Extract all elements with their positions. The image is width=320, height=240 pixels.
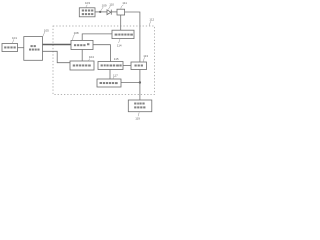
svg-text:111: 111 xyxy=(122,1,127,5)
box A (converter, top) xyxy=(79,8,95,17)
box I (processor 117) xyxy=(97,79,121,87)
label 115 xyxy=(111,55,119,61)
wire C to D xyxy=(18,47,24,49)
label 117 xyxy=(113,73,118,78)
label 104 xyxy=(88,55,94,61)
dashed enclosure 112 xyxy=(53,26,155,95)
wire B bottom to box K top xyxy=(120,15,122,30)
background xyxy=(0,0,157,120)
svg-text:103: 103 xyxy=(85,1,90,5)
label 105 xyxy=(43,28,49,36)
wire G bottom riser to I xyxy=(109,70,111,80)
wire H bottom down through junction to box J xyxy=(139,70,141,101)
box A text line 1 xyxy=(82,10,94,12)
label 101 xyxy=(12,36,17,43)
box H text xyxy=(134,65,142,67)
box D (power unit 105) xyxy=(24,37,43,61)
svg-text:114: 114 xyxy=(117,43,122,47)
label 110 xyxy=(108,2,114,9)
box E (oscillator 108) xyxy=(71,40,93,49)
box C text xyxy=(4,46,16,48)
label 111 xyxy=(121,1,127,9)
svg-text:113: 113 xyxy=(143,54,148,58)
node 109 junction dot xyxy=(99,11,101,13)
wire E top riser to box K left xyxy=(82,34,112,41)
wire diode to box B xyxy=(111,11,117,13)
wire B right to top-right corner then down to box H xyxy=(125,12,140,62)
junction 118 dot xyxy=(139,81,141,83)
box G text xyxy=(101,64,122,66)
box D text line 2 xyxy=(29,49,40,51)
box I text xyxy=(100,82,118,84)
svg-text:112: 112 xyxy=(149,18,154,22)
box J text line 2 xyxy=(134,106,145,108)
box J (DC-DC converter 119) xyxy=(128,100,152,112)
box E text xyxy=(74,43,89,46)
box B (small block 111) xyxy=(117,9,125,15)
wire E right then down to box G top xyxy=(93,45,110,62)
box F (measuring unit 104) xyxy=(70,61,94,70)
wire E bottom riser to box F top xyxy=(81,50,83,62)
svg-text:117: 117 xyxy=(113,73,118,77)
wire D to E (thick) xyxy=(43,44,72,46)
svg-text:101: 101 xyxy=(12,36,17,40)
box A text line 2 xyxy=(82,13,94,15)
label 103 xyxy=(85,1,90,8)
box F text xyxy=(73,64,91,66)
box C (input unit 101) xyxy=(2,44,18,52)
box K text xyxy=(115,34,133,36)
box D text line 1 xyxy=(31,45,36,47)
box G (storage 115) xyxy=(98,62,123,70)
box J text line 1 xyxy=(134,103,144,105)
wire A to node xyxy=(95,11,107,13)
svg-text:109: 109 xyxy=(102,4,107,8)
wire D lower L to box F xyxy=(43,51,71,62)
box K (power regulator 114) xyxy=(112,30,134,38)
label 109 xyxy=(101,4,107,11)
svg-text:110: 110 xyxy=(109,2,114,6)
diode 110 xyxy=(107,10,111,15)
label 113 xyxy=(143,54,148,62)
wire G right to H xyxy=(123,65,131,67)
label 108 xyxy=(73,31,79,40)
svg-text:115: 115 xyxy=(114,57,119,61)
label 119 xyxy=(135,112,140,120)
label 114 xyxy=(117,39,122,48)
box H (EAP 113) xyxy=(131,62,147,70)
wire I right to junction xyxy=(121,82,140,84)
label 112 xyxy=(149,18,154,26)
svg-text:119: 119 xyxy=(135,117,140,120)
